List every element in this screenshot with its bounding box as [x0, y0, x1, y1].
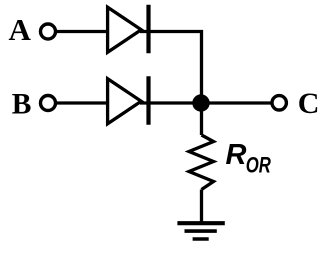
wire junction to terminal C [202, 101, 272, 104]
svg-text:OR: OR [246, 153, 271, 178]
terminal B [41, 96, 56, 111]
diode D1 [108, 5, 149, 54]
wire resistor to ground [200, 190, 203, 224]
diode D2 [108, 76, 149, 125]
wire A to diode D1 [57, 30, 109, 33]
wire D2 cathode to junction [140, 101, 202, 104]
wire junction to resistor [200, 103, 203, 135]
terminal A [41, 24, 56, 39]
junction node [192, 94, 209, 111]
svg-text:A: A [9, 12, 32, 47]
wire D1 cathode to corner and down to junction [140, 32, 202, 104]
svg-text:B: B [12, 89, 32, 121]
svg-text:R: R [226, 139, 247, 171]
ground [177, 223, 224, 239]
svg-text:C: C [298, 87, 320, 120]
wire B to diode D2 [57, 101, 109, 104]
resistor R_OR [189, 135, 214, 190]
terminal C [272, 96, 286, 110]
